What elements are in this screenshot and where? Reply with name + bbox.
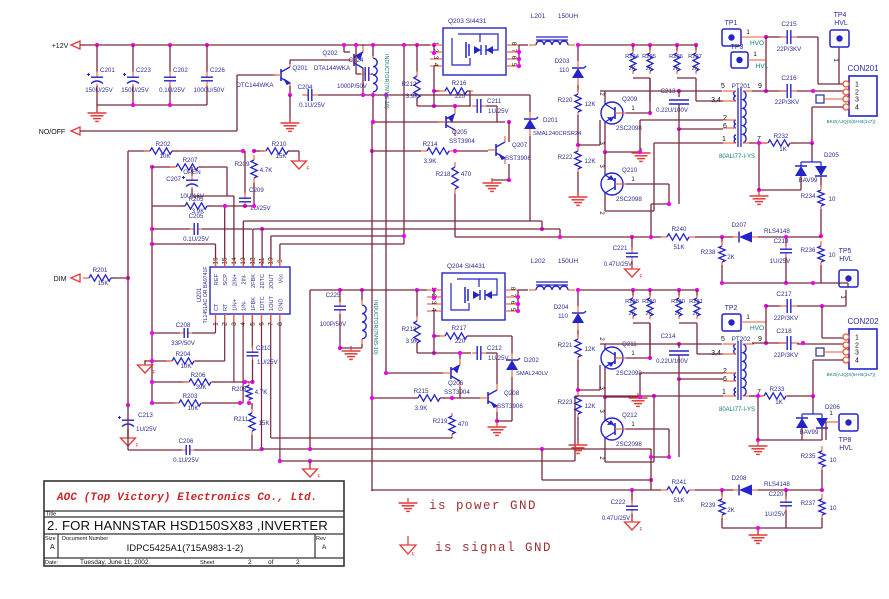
svg-text:C222: C222 [611,499,626,506]
svg-text:2SC2098: 2SC2098 [616,370,642,377]
svg-text:R221: R221 [558,342,573,349]
svg-text:R223: R223 [558,399,573,406]
svg-text:1U/25V: 1U/25V [765,511,787,518]
svg-text:6: 6 [723,376,727,383]
svg-text:D202: D202 [524,357,539,364]
svg-text:39K: 39K [195,384,207,391]
svg-text:R227: R227 [688,54,702,60]
svg-text:D207: D207 [732,222,747,229]
svg-text:0.1U/25V: 0.1U/25V [299,102,326,109]
svg-text:HVO: HVO [750,40,764,47]
svg-text:SST3904: SST3904 [449,138,475,145]
svg-text:R229: R229 [642,299,656,305]
svg-text:1: 1 [855,335,859,342]
svg-text:2SC2098: 2SC2098 [616,196,642,203]
svg-text:C226: C226 [210,67,225,74]
svg-text:INDUCTOR(7MM5-10): INDUCTOR(7MM5-10) [383,54,389,109]
svg-text:Document Number: Document Number [62,536,108,542]
svg-text:2K: 2K [645,66,652,72]
svg-text:1: 1 [839,295,846,299]
svg-text:DTC144WKA: DTC144WKA [236,82,274,89]
svg-text:Date:: Date: [45,560,59,566]
svg-text:1U/25V: 1U/25V [488,108,510,115]
svg-text:GND: GND [278,299,284,311]
svg-text:1OUT: 1OUT [269,295,275,311]
svg-text:SST3906: SST3906 [505,155,531,162]
svg-text:HVO: HVO [750,325,764,332]
svg-text:Q204 SI4431: Q204 SI4431 [447,263,486,270]
svg-text:BKO(AJQ)S(5H-B(1x7)): BKO(AJQ)S(5H-B(1x7)) [827,119,876,124]
svg-text:4: 4 [855,358,859,365]
svg-text:3,4: 3,4 [711,97,721,104]
svg-text:2: 2 [248,559,252,566]
svg-text:2: 2 [296,559,300,566]
svg-text:L201: L201 [531,13,546,20]
svg-text:SST3904: SST3904 [444,389,470,396]
svg-text:100P/50V: 100P/50V [320,322,346,328]
svg-text:C210: C210 [256,345,271,352]
svg-text:1: 1 [746,29,750,36]
svg-text:15K: 15K [97,280,109,287]
svg-text:Q210: Q210 [622,167,638,174]
svg-text:R241: R241 [672,479,687,486]
svg-text:220: 220 [455,93,466,100]
svg-text:DIM: DIM [54,276,67,283]
svg-text:R205: R205 [189,196,204,203]
svg-text:CON202: CON202 [847,317,879,326]
svg-text:SMAL240LV: SMAL240LV [516,371,548,377]
svg-text:F: F [135,443,138,449]
svg-text:C212: C212 [487,345,502,352]
svg-text:Sheet: Sheet [200,560,215,566]
svg-text:R233: R233 [770,386,785,393]
svg-text:R231: R231 [689,299,703,305]
svg-text:C202: C202 [173,67,188,74]
svg-text:1FBK: 1FBK [251,297,257,311]
svg-text:Q202: Q202 [322,50,338,57]
svg-text:R240: R240 [672,226,687,233]
svg-text:R209: R209 [235,161,250,168]
svg-text:R210: R210 [272,141,287,148]
svg-text:12K: 12K [584,101,596,108]
svg-text:R238: R238 [701,249,716,256]
svg-text:R222: R222 [558,154,573,161]
svg-text:51K: 51K [673,244,685,251]
svg-text:6: 6 [723,123,727,130]
svg-text:22P/3KV: 22P/3KV [775,99,800,106]
svg-text:1U/25V: 1U/25V [770,258,792,265]
svg-text:TP8: TP8 [839,437,852,444]
svg-text:R220: R220 [558,97,573,104]
svg-text:12K: 12K [584,403,596,410]
svg-text:C214: C214 [661,333,676,340]
svg-text:10: 10 [830,457,837,464]
svg-text:1: 1 [855,82,859,89]
svg-text:4: 4 [855,105,859,112]
svg-text:Vcc: Vcc [278,274,284,284]
svg-text:2K: 2K [645,311,652,317]
svg-text:2IN+: 2IN+ [232,274,238,286]
svg-text:2. FOR HANNSTAR HSD150SX83 ,IN: 2. FOR HANNSTAR HSD150SX83 ,INVERTER [47,518,328,533]
svg-text:R206: R206 [191,372,206,379]
svg-text:Q209: Q209 [622,96,638,103]
svg-text:0.1U/25V: 0.1U/25V [183,236,210,243]
svg-text:10: 10 [829,196,836,203]
svg-text:0.47U/25V: 0.47U/25V [602,516,630,522]
svg-text:1U/25V: 1U/25V [136,426,158,433]
svg-text:1U/25V: 1U/25V [488,355,510,362]
svg-text:A: A [322,544,327,551]
svg-text:R211: R211 [234,416,249,423]
svg-text:0.1U/25V: 0.1U/25V [159,87,186,94]
svg-text:80ALI77-I-YS: 80ALI77-I-YS [719,407,755,413]
svg-text:1: 1 [829,410,833,417]
svg-text:is signal GND: is signal GND [435,541,552,555]
svg-text:10: 10 [829,252,836,259]
svg-text:C211: C211 [487,98,502,105]
svg-text:R207: R207 [183,157,198,164]
svg-text:9: 9 [758,83,762,90]
svg-text:80ALI77-I-YS: 80ALI77-I-YS [719,154,755,160]
svg-text:Q206: Q206 [448,380,464,387]
svg-text:R224: R224 [625,54,640,60]
svg-text:150U/25V: 150U/25V [121,87,149,94]
svg-text:R230: R230 [671,299,685,305]
svg-text:150UH: 150UH [558,13,579,20]
svg-text:C218: C218 [776,328,792,335]
svg-text:is power GND: is power GND [429,499,537,513]
svg-text:1IN-: 1IN- [242,300,248,311]
svg-text:C219: C219 [774,238,789,245]
svg-text:R203: R203 [183,393,198,400]
svg-text:2: 2 [723,115,727,122]
svg-text:IDPC5425A1(715A983-1-2): IDPC5425A1(715A983-1-2) [127,543,244,554]
svg-text:C205: C205 [189,213,204,220]
svg-text:F: F [639,274,642,280]
svg-text:2SC2098: 2SC2098 [616,125,642,132]
svg-text:F: F [317,474,320,480]
svg-text:4.7K: 4.7K [255,389,269,396]
svg-text:2K: 2K [692,311,699,317]
svg-text:2K: 2K [727,507,735,514]
svg-text:F: F [152,370,155,376]
svg-text:1K: 1K [779,146,787,153]
svg-text:2K: 2K [628,66,635,72]
svg-text:22P/3KV: 22P/3KV [774,352,799,359]
svg-text:150UH: 150UH [558,258,579,265]
svg-text:15K: 15K [258,420,270,427]
svg-text:INDUCTOR(7MM5-10): INDUCTOR(7MM5-10) [372,300,378,355]
svg-text:R216: R216 [452,80,467,87]
svg-text:RLS4148: RLS4148 [764,481,790,488]
svg-text:4.7K: 4.7K [260,167,274,174]
svg-text:R202: R202 [156,141,171,148]
svg-text:R228: R228 [625,299,639,305]
svg-text:470: 470 [458,421,469,428]
svg-text:5: 5 [721,336,725,343]
svg-text:R235: R235 [801,453,816,460]
svg-text:R215: R215 [414,388,429,395]
svg-text:C204: C204 [298,84,313,91]
svg-text:C217: C217 [776,291,792,298]
svg-text:12K: 12K [584,158,596,165]
svg-text:2K: 2K [628,311,635,317]
svg-text:F: F [306,166,309,172]
svg-text:2K: 2K [672,66,679,72]
svg-text:R208: R208 [232,386,247,393]
svg-text:2: 2 [855,90,859,97]
svg-text:2OUT: 2OUT [269,273,275,289]
svg-text:1K: 1K [775,399,783,406]
svg-text:1: 1 [746,314,750,321]
svg-text:TP1: TP1 [725,20,738,27]
svg-text:HVL: HVL [756,63,769,70]
svg-text:Q201: Q201 [292,65,308,72]
svg-text:110: 110 [559,67,569,74]
svg-text:R232: R232 [774,133,789,140]
svg-text:HVL: HVL [834,20,848,27]
svg-text:10K: 10K [180,363,192,370]
svg-text:C201: C201 [100,67,115,74]
svg-text:R236: R236 [801,247,816,254]
svg-text:110: 110 [558,313,568,320]
svg-text:10: 10 [830,505,837,512]
svg-text:2: 2 [723,368,727,375]
svg-text:C213: C213 [138,412,153,419]
svg-text:CON201: CON201 [847,64,879,73]
svg-text:51K: 51K [673,497,685,504]
svg-text:1U/25V: 1U/25V [257,359,279,366]
svg-text:Rev: Rev [316,536,326,542]
svg-text:DTA144WKA: DTA144WKA [314,65,351,72]
svg-text:1000U/50V: 1000U/50V [194,87,226,94]
svg-text:C215: C215 [781,21,797,28]
svg-text:Q203 SI4431: Q203 SI4431 [448,18,487,25]
svg-text:TP2: TP2 [725,305,738,312]
svg-text:9: 9 [758,336,762,343]
svg-text:3: 3 [855,97,859,104]
svg-text:D203: D203 [555,58,570,65]
svg-text:D208: D208 [732,475,747,482]
svg-text:SMAL240CRSR24: SMAL240CRSR24 [533,131,582,137]
svg-text:C207: C207 [166,176,181,183]
svg-text:+12V: +12V [52,43,69,50]
svg-text:L202: L202 [531,258,546,265]
svg-text:470: 470 [461,171,472,178]
svg-text:Q207: Q207 [512,142,528,149]
svg-text:1DTC: 1DTC [260,296,266,311]
svg-text:R218: R218 [436,171,451,178]
svg-text:D201: D201 [543,117,558,124]
svg-text:10K: 10K [159,153,171,160]
svg-text:1: 1 [722,389,726,396]
svg-text:NO/OFF: NO/OFF [39,129,65,136]
svg-text:R219: R219 [433,418,448,425]
svg-text:2: 2 [855,343,859,350]
svg-text:R217: R217 [452,325,467,332]
svg-text:0.47U/25V: 0.47U/25V [604,262,632,268]
svg-text:RLS4148: RLS4148 [764,228,790,235]
svg-text:1: 1 [832,58,839,62]
svg-text:R204: R204 [176,351,191,358]
svg-text:C216: C216 [781,75,797,82]
svg-text:2FBK: 2FBK [251,274,257,288]
svg-text:BKO(AJQ)S(5H-B(1x7)): BKO(AJQ)S(5H-B(1x7)) [827,372,876,377]
svg-text:Size: Size [45,536,56,542]
svg-text:TP5: TP5 [839,248,852,255]
svg-text:TP4: TP4 [834,12,847,19]
svg-text:SCP: SCP [223,274,229,286]
svg-text:TP3: TP3 [731,44,744,51]
svg-text:C220: C220 [769,491,784,498]
svg-text:C221: C221 [613,245,628,252]
svg-text:R226: R226 [669,54,683,60]
svg-text:3.9K: 3.9K [424,158,438,165]
svg-text:TL1451AC OR BA9741F: TL1451AC OR BA9741F [203,266,209,323]
svg-text:R225: R225 [642,54,656,60]
svg-text:D205: D205 [824,152,839,159]
svg-text:C206: C206 [179,438,194,445]
svg-text:C223: C223 [136,67,151,74]
svg-text:3: 3 [855,350,859,357]
svg-text:A: A [50,544,55,551]
svg-text:R214: R214 [423,141,438,148]
svg-text:R234: R234 [801,193,816,200]
svg-text:C209: C209 [249,187,264,194]
svg-text:12K: 12K [584,346,596,353]
svg-text:C208: C208 [176,322,191,329]
svg-text:2K: 2K [727,254,735,261]
svg-text:F: F [411,552,414,558]
svg-text:1IN+: 1IN+ [232,299,238,311]
svg-text:Q205: Q205 [452,129,468,136]
svg-text:REF: REF [214,273,220,285]
svg-text:0.22U/100V: 0.22U/100V [656,108,688,114]
svg-text:AOC (Top Victory) Electronics: AOC (Top Victory) Electronics Co., Ltd. [56,492,318,504]
svg-text:D204: D204 [554,304,569,311]
svg-text:2IN-: 2IN- [242,274,248,285]
svg-text:22P/3KV: 22P/3KV [777,46,802,53]
svg-text:SST3906: SST3906 [497,403,523,410]
svg-text:2DTC: 2DTC [260,274,266,289]
svg-text:22P/3KV: 22P/3KV [774,315,799,322]
svg-text:0.22U/100V: 0.22U/100V [656,359,688,365]
svg-text:Q212: Q212 [622,412,638,419]
svg-text:C225: C225 [326,292,341,299]
svg-text:2SC2098: 2SC2098 [616,441,642,448]
svg-text:3,4: 3,4 [711,350,721,357]
svg-text:33P/50V: 33P/50V [171,340,196,347]
svg-text:5: 5 [721,83,725,90]
svg-text:R237: R237 [801,500,816,507]
svg-text:RT: RT [223,303,229,311]
svg-text:HVL: HVL [839,256,853,263]
svg-text:10K: 10K [187,405,199,412]
svg-text:2K: 2K [674,311,681,317]
svg-text:0.1U/25V: 0.1U/25V [173,457,200,464]
svg-text:R239: R239 [701,502,716,509]
svg-text:Tuesday, June 11, 2002: Tuesday, June 11, 2002 [80,559,149,566]
svg-text:1: 1 [753,51,757,58]
svg-text:220: 220 [455,338,466,345]
svg-text:15K: 15K [275,153,287,160]
svg-text:1000P/50V: 1000P/50V [337,84,367,90]
svg-text:R212: R212 [402,81,417,88]
svg-text:HVL: HVL [839,445,853,452]
svg-text:F: F [639,527,642,533]
svg-text:CT: CT [214,303,220,311]
svg-text:R213: R213 [402,326,417,333]
svg-text:1: 1 [722,136,726,143]
svg-text:R201: R201 [93,267,108,274]
svg-text:Title: Title [46,512,56,518]
svg-text:2K: 2K [691,66,698,72]
svg-text:3.9K: 3.9K [415,405,429,412]
svg-text:of: of [268,559,274,566]
svg-text:150U/25V: 150U/25V [85,87,113,94]
